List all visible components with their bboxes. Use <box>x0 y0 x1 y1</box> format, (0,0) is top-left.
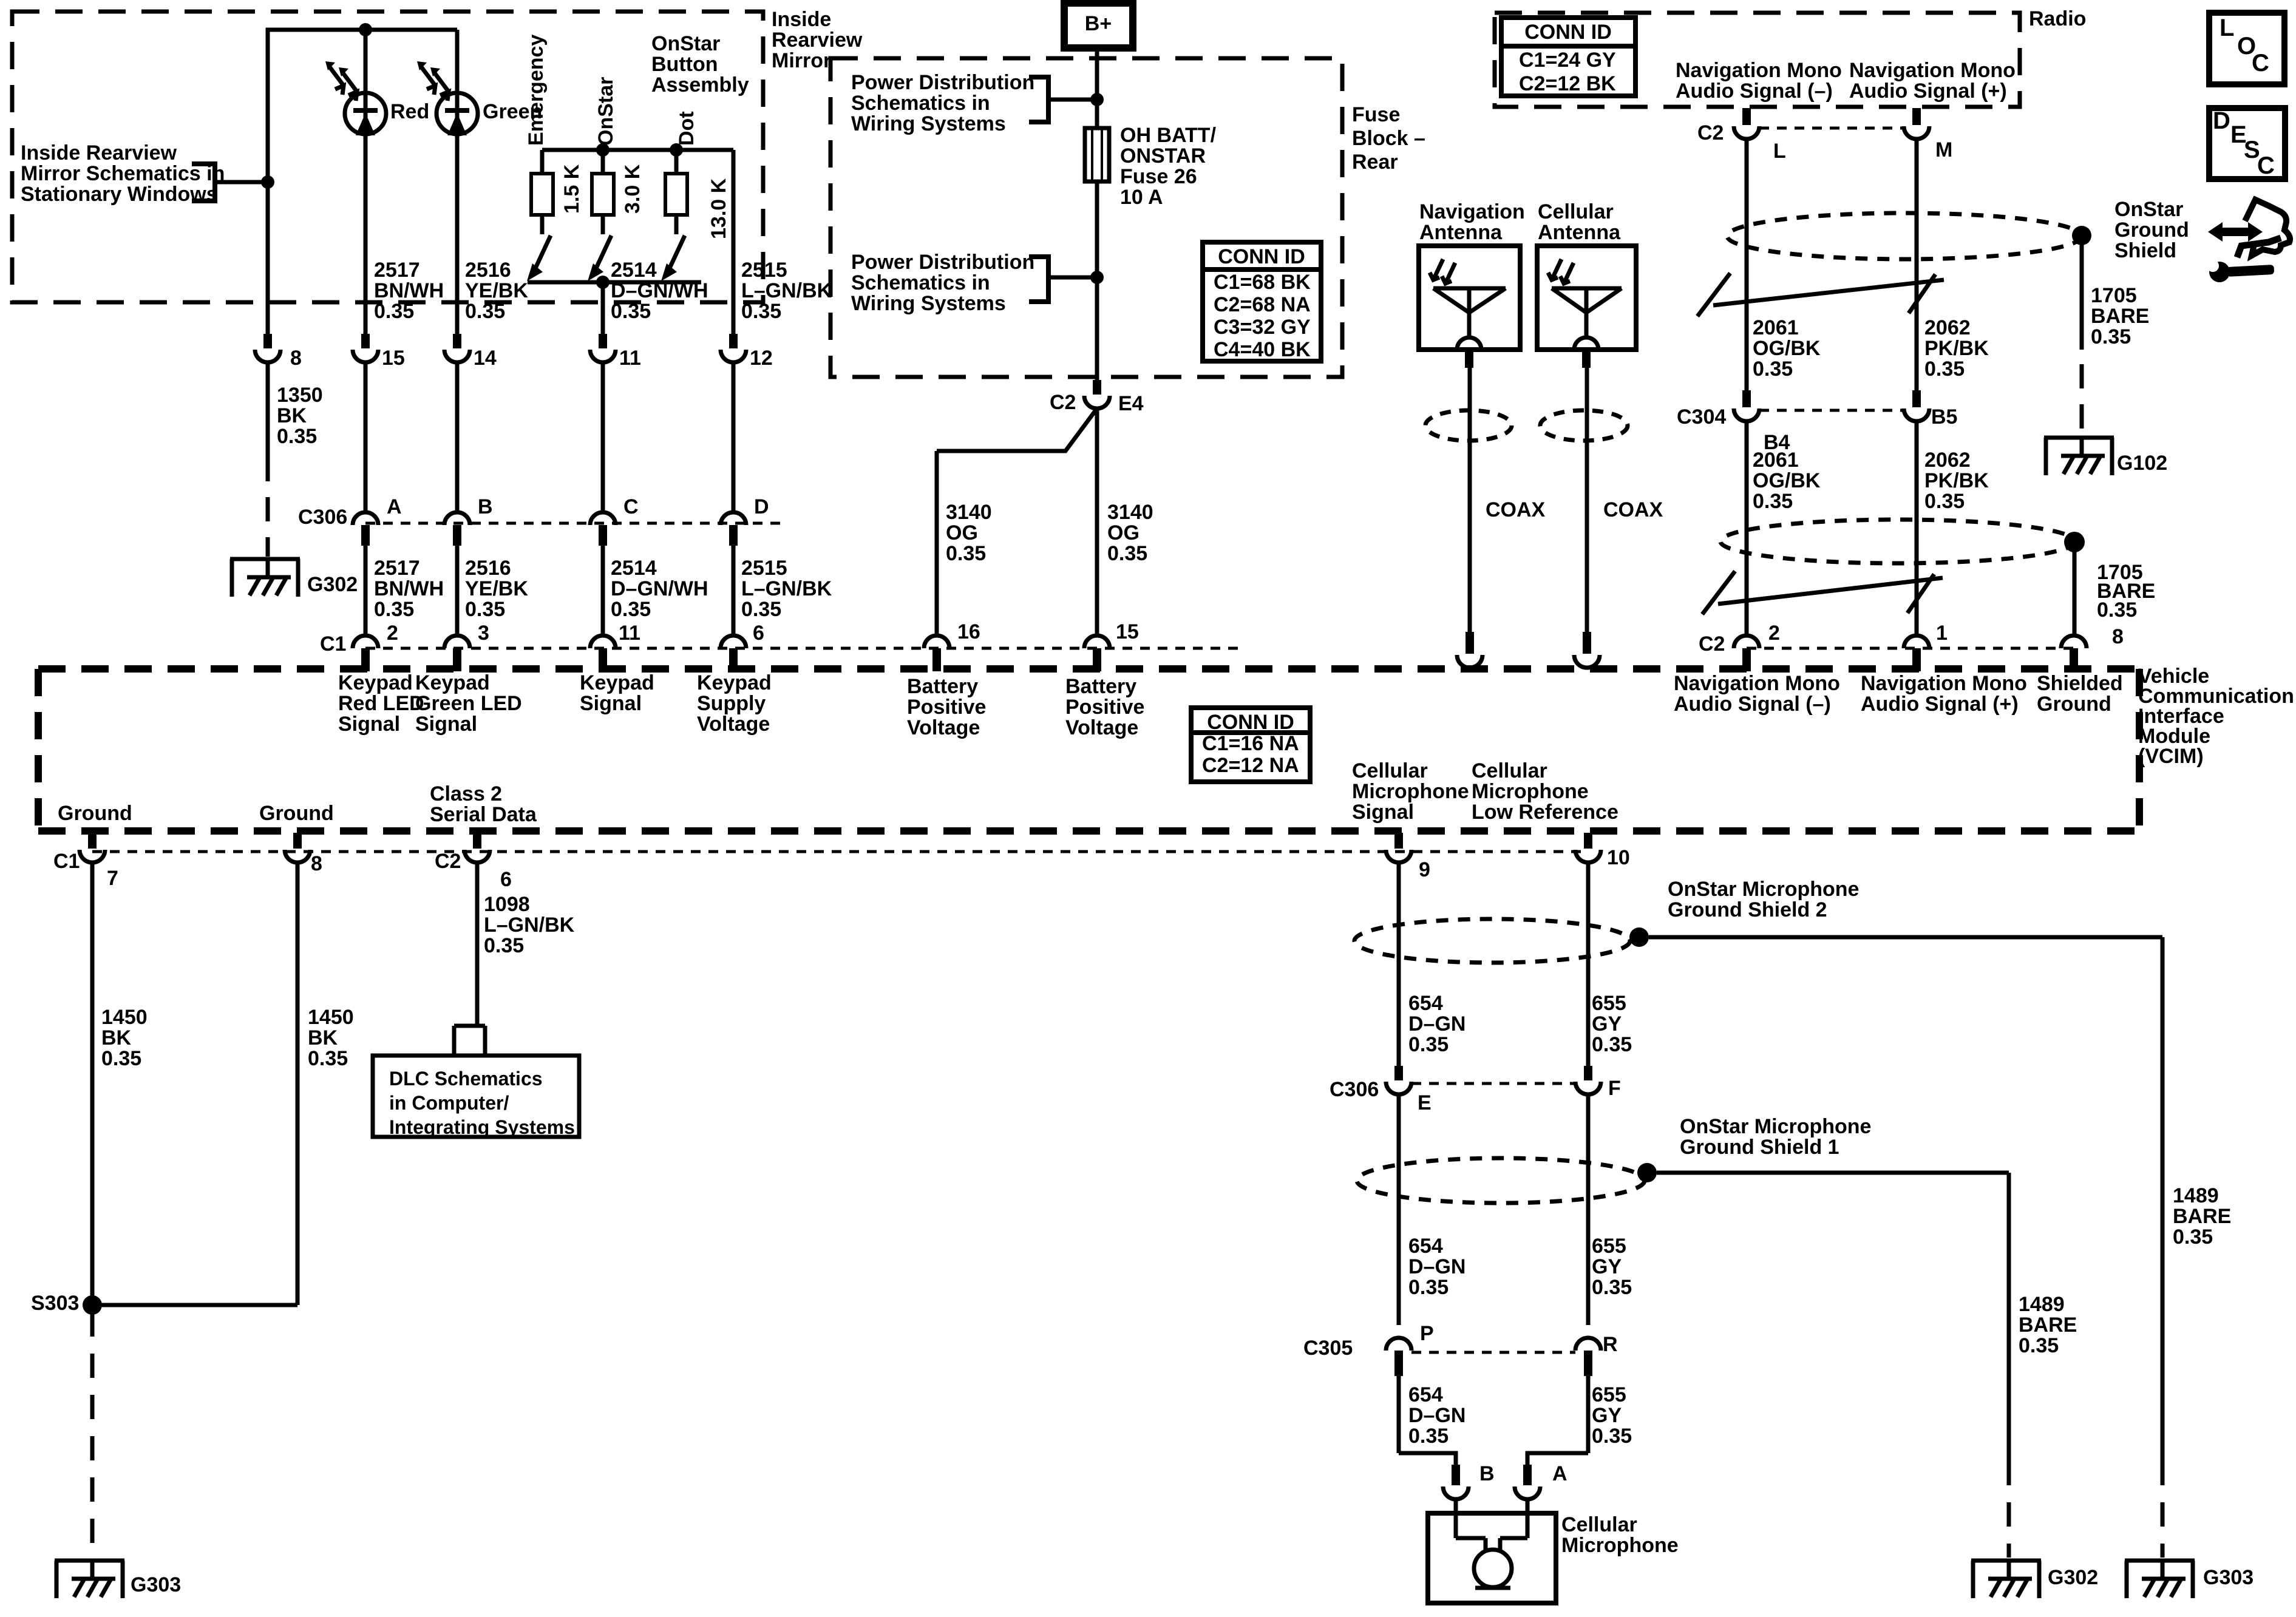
svg-text:S303: S303 <box>31 1292 79 1315</box>
svg-text:OnStar: OnStar <box>651 32 720 55</box>
svg-text:Wiring Systems: Wiring Systems <box>851 292 1006 315</box>
svg-text:Low Reference: Low Reference <box>1472 801 1618 824</box>
svg-text:BK: BK <box>101 1026 132 1049</box>
svg-text:in Computer/: in Computer/ <box>389 1092 509 1114</box>
svg-text:C306: C306 <box>298 506 347 529</box>
svg-text:Navigation Mono: Navigation Mono <box>1676 59 1842 82</box>
svg-text:0.35: 0.35 <box>611 598 651 621</box>
svg-text:0.35: 0.35 <box>374 300 414 323</box>
svg-text:2515: 2515 <box>741 557 787 580</box>
svg-text:Signal: Signal <box>580 692 642 715</box>
svg-text:Keypad: Keypad <box>338 671 413 694</box>
svg-text:OG/BK: OG/BK <box>1753 337 1821 360</box>
svg-text:OG: OG <box>1107 521 1140 544</box>
svg-text:Navigation Mono: Navigation Mono <box>1861 672 2027 695</box>
svg-text:ONSTAR: ONSTAR <box>1120 144 1206 168</box>
svg-text:0.35: 0.35 <box>101 1047 141 1070</box>
svg-text:C2=12 BK: C2=12 BK <box>1519 72 1616 95</box>
svg-text:Ground: Ground <box>259 802 334 825</box>
svg-text:0.35: 0.35 <box>484 934 524 957</box>
svg-text:Ground: Ground <box>58 802 132 825</box>
svg-text:Cellular: Cellular <box>1472 759 1547 782</box>
svg-text:Audio Signal (–): Audio Signal (–) <box>1674 693 1831 716</box>
svg-text:Block –: Block – <box>1352 127 1425 150</box>
svg-text:3140: 3140 <box>1107 501 1153 524</box>
svg-text:CONN ID: CONN ID <box>1218 245 1305 268</box>
svg-text:655: 655 <box>1592 1383 1626 1406</box>
svg-text:Audio Signal (+): Audio Signal (+) <box>1849 80 2007 103</box>
svg-text:BK: BK <box>308 1026 338 1049</box>
svg-text:2514: 2514 <box>611 259 657 282</box>
svg-text:Keypad: Keypad <box>580 671 654 694</box>
svg-text:1450: 1450 <box>308 1006 354 1029</box>
svg-text:C: C <box>623 495 639 518</box>
svg-text:L–GN/BK: L–GN/BK <box>741 577 832 600</box>
svg-text:14: 14 <box>474 347 497 370</box>
svg-text:C3=32 GY: C3=32 GY <box>1214 316 1311 339</box>
svg-text:PK/BK: PK/BK <box>1924 469 1989 492</box>
svg-text:OH BATT/: OH BATT/ <box>1120 124 1217 147</box>
svg-text:2516: 2516 <box>465 259 511 282</box>
svg-text:16: 16 <box>957 620 980 643</box>
svg-text:Navigation: Navigation <box>1419 200 1525 223</box>
svg-text:Wiring Systems: Wiring Systems <box>851 112 1006 135</box>
svg-text:Microphone: Microphone <box>1561 1534 1679 1557</box>
svg-text:Antenna: Antenna <box>1419 221 1503 244</box>
svg-text:Rearview: Rearview <box>772 29 863 52</box>
svg-text:L–GN/BK: L–GN/BK <box>484 914 575 937</box>
svg-text:L: L <box>1773 140 1786 163</box>
svg-text:Cellular: Cellular <box>1352 759 1428 782</box>
svg-text:Antenna: Antenna <box>1538 221 1621 244</box>
svg-text:OnStar: OnStar <box>594 77 617 146</box>
svg-text:0.35: 0.35 <box>1592 1276 1632 1299</box>
svg-text:Dot: Dot <box>675 111 698 146</box>
svg-text:Radio: Radio <box>2029 7 2086 30</box>
svg-text:P: P <box>1420 1322 1434 1345</box>
svg-text:0.35: 0.35 <box>1753 358 1793 381</box>
svg-text:Voltage: Voltage <box>907 716 980 739</box>
svg-text:12: 12 <box>750 347 773 370</box>
svg-text:OG: OG <box>946 521 978 544</box>
svg-text:0.35: 0.35 <box>374 598 414 621</box>
svg-text:Ground: Ground <box>2037 693 2111 716</box>
svg-text:15: 15 <box>1116 620 1139 643</box>
svg-text:C2: C2 <box>1050 391 1076 414</box>
svg-text:655: 655 <box>1592 1235 1626 1258</box>
svg-text:C4=40 BK: C4=40 BK <box>1214 338 1311 361</box>
svg-text:BK: BK <box>277 404 307 427</box>
svg-text:0.35: 0.35 <box>1753 490 1793 513</box>
svg-text:Green LED: Green LED <box>415 692 522 715</box>
svg-text:D: D <box>2213 107 2230 134</box>
svg-text:2514: 2514 <box>611 557 657 580</box>
svg-text:C: C <box>2252 50 2269 76</box>
svg-text:G302: G302 <box>307 573 358 596</box>
svg-text:0.35: 0.35 <box>1107 542 1147 565</box>
svg-text:BARE: BARE <box>2173 1205 2231 1228</box>
svg-text:CONN ID: CONN ID <box>1524 21 1612 44</box>
svg-text:3.0 K: 3.0 K <box>621 164 644 214</box>
svg-text:D–GN: D–GN <box>1408 1404 1466 1427</box>
svg-text:B: B <box>478 495 493 518</box>
svg-text:Red LED: Red LED <box>338 692 424 715</box>
svg-text:DLC Schematics: DLC Schematics <box>389 1068 543 1090</box>
svg-text:Battery: Battery <box>1065 675 1136 698</box>
svg-text:2: 2 <box>1768 622 1780 645</box>
svg-text:Voltage: Voltage <box>1065 716 1138 739</box>
svg-text:0.35: 0.35 <box>1592 1033 1632 1056</box>
svg-text:OnStar Microphone: OnStar Microphone <box>1668 878 1859 901</box>
svg-text:C1=16 NA: C1=16 NA <box>1202 732 1299 755</box>
svg-text:BN/WH: BN/WH <box>374 577 444 600</box>
svg-text:1: 1 <box>1936 622 1948 645</box>
svg-text:Positive: Positive <box>907 696 986 719</box>
svg-text:0.35: 0.35 <box>2019 1334 2059 1357</box>
svg-text:GY: GY <box>1592 1255 1622 1278</box>
svg-text:C304: C304 <box>1677 405 1726 429</box>
svg-text:Assembly: Assembly <box>651 73 749 97</box>
svg-text:10 A: 10 A <box>1120 186 1163 209</box>
svg-text:Red: Red <box>390 100 429 123</box>
svg-text:13.0 K: 13.0 K <box>707 178 730 239</box>
svg-text:C2=68 NA: C2=68 NA <box>1214 293 1311 316</box>
svg-text:GY: GY <box>1592 1404 1622 1427</box>
svg-text:COAX: COAX <box>1603 498 1663 521</box>
svg-text:1.5 K: 1.5 K <box>560 164 583 214</box>
svg-text:A: A <box>1552 1462 1567 1485</box>
svg-text:CONN ID: CONN ID <box>1207 711 1294 734</box>
svg-text:Signal: Signal <box>1352 801 1414 824</box>
svg-text:BN/WH: BN/WH <box>374 279 444 302</box>
svg-text:Battery: Battery <box>907 675 978 698</box>
svg-text:COAX: COAX <box>1486 498 1546 521</box>
svg-text:Microphone: Microphone <box>1472 780 1589 803</box>
svg-text:6: 6 <box>500 868 512 891</box>
svg-text:0.35: 0.35 <box>611 300 651 323</box>
svg-text:Integrating Systems: Integrating Systems <box>389 1116 575 1138</box>
svg-text:0.35: 0.35 <box>2091 325 2131 348</box>
svg-text:E4: E4 <box>1118 392 1144 415</box>
svg-text:Microphone: Microphone <box>1352 780 1469 803</box>
svg-text:654: 654 <box>1408 1235 1443 1258</box>
svg-text:2516: 2516 <box>465 557 511 580</box>
svg-text:Schematics in: Schematics in <box>851 271 990 294</box>
svg-text:C2: C2 <box>435 850 461 873</box>
svg-text:C1=24 GY: C1=24 GY <box>1519 49 1616 72</box>
svg-text:D: D <box>754 495 769 518</box>
svg-text:F: F <box>1608 1077 1621 1100</box>
svg-text:8: 8 <box>290 347 302 370</box>
svg-text:7: 7 <box>107 867 118 890</box>
svg-text:PK/BK: PK/BK <box>1924 337 1989 360</box>
svg-text:Button: Button <box>651 53 718 76</box>
svg-text:B: B <box>1479 1462 1495 1485</box>
svg-text:2061: 2061 <box>1753 449 1799 472</box>
svg-text:655: 655 <box>1592 992 1626 1015</box>
svg-text:C: C <box>2257 152 2275 179</box>
svg-text:Cellular: Cellular <box>1538 200 1614 223</box>
svg-text:R: R <box>1603 1333 1618 1356</box>
svg-text:11: 11 <box>619 347 641 370</box>
svg-text:1450: 1450 <box>101 1006 148 1029</box>
svg-text:L: L <box>2220 15 2234 41</box>
svg-text:2515: 2515 <box>741 259 787 282</box>
svg-text:BARE: BARE <box>2019 1314 2077 1337</box>
svg-text:654: 654 <box>1408 1383 1443 1406</box>
svg-text:Ground: Ground <box>2114 219 2189 242</box>
svg-text:9: 9 <box>1419 858 1430 881</box>
svg-text:Stationary Windows: Stationary Windows <box>21 183 218 206</box>
svg-text:(VCIM): (VCIM) <box>2138 745 2204 768</box>
svg-text:Schematics in: Schematics in <box>851 92 990 115</box>
svg-text:11: 11 <box>619 622 640 645</box>
svg-text:Keypad: Keypad <box>697 671 772 694</box>
svg-text:10: 10 <box>1607 846 1630 869</box>
svg-text:Fuse 26: Fuse 26 <box>1120 165 1197 188</box>
svg-text:YE/BK: YE/BK <box>465 279 528 302</box>
svg-text:Mirror: Mirror <box>772 49 831 72</box>
svg-text:Shielded: Shielded <box>2037 672 2123 695</box>
svg-text:0.35: 0.35 <box>1924 358 1965 381</box>
svg-text:2062: 2062 <box>1924 316 1971 339</box>
svg-text:1489: 1489 <box>2173 1184 2219 1207</box>
svg-text:Positive: Positive <box>1065 696 1144 719</box>
svg-text:0.35: 0.35 <box>1592 1425 1632 1448</box>
svg-text:B5: B5 <box>1931 405 1957 429</box>
svg-text:6: 6 <box>753 622 764 645</box>
svg-text:Ground Shield 1: Ground Shield 1 <box>1680 1136 1839 1159</box>
svg-text:Keypad: Keypad <box>415 671 490 694</box>
svg-text:BARE: BARE <box>2091 305 2149 328</box>
svg-text:0.35: 0.35 <box>2097 598 2137 622</box>
svg-text:Audio Signal (+): Audio Signal (+) <box>1861 693 2019 716</box>
svg-text:Voltage: Voltage <box>697 713 770 736</box>
svg-text:Cellular: Cellular <box>1561 1513 1637 1536</box>
svg-text:0.35: 0.35 <box>1408 1276 1449 1299</box>
svg-text:C1: C1 <box>320 632 346 656</box>
svg-text:C2=12 NA: C2=12 NA <box>1202 754 1299 777</box>
svg-text:0.35: 0.35 <box>946 542 986 565</box>
svg-text:Shield: Shield <box>2114 239 2176 262</box>
svg-text:0.35: 0.35 <box>308 1047 348 1070</box>
svg-text:2061: 2061 <box>1753 316 1799 339</box>
svg-text:Audio Signal (–): Audio Signal (–) <box>1676 80 1833 103</box>
svg-text:L–GN/BK: L–GN/BK <box>741 279 832 302</box>
svg-text:0.35: 0.35 <box>1408 1425 1449 1448</box>
svg-text:1705: 1705 <box>2091 284 2137 307</box>
svg-text:2517: 2517 <box>374 259 420 282</box>
svg-text:C2: C2 <box>1699 632 1725 656</box>
svg-text:0.35: 0.35 <box>1924 490 1965 513</box>
svg-text:Class 2: Class 2 <box>430 782 502 805</box>
svg-text:Navigation Mono: Navigation Mono <box>1674 672 1840 695</box>
svg-text:3: 3 <box>478 622 489 645</box>
svg-text:C1=68 BK: C1=68 BK <box>1214 271 1311 294</box>
svg-text:OnStar Microphone: OnStar Microphone <box>1680 1115 1871 1138</box>
svg-text:OG/BK: OG/BK <box>1753 469 1821 492</box>
svg-text:Signal: Signal <box>415 713 477 736</box>
svg-text:Inside Rearview: Inside Rearview <box>21 141 177 164</box>
svg-text:0.35: 0.35 <box>741 598 781 621</box>
svg-text:8: 8 <box>2112 625 2124 648</box>
svg-text:Power Distribution: Power Distribution <box>851 71 1034 94</box>
svg-text:Rear: Rear <box>1352 151 1398 174</box>
svg-text:Signal: Signal <box>338 713 400 736</box>
svg-text:YE/BK: YE/BK <box>465 577 528 600</box>
svg-text:Fuse: Fuse <box>1352 103 1400 126</box>
svg-text:0.35: 0.35 <box>1408 1033 1449 1056</box>
svg-text:0.35: 0.35 <box>2173 1225 2213 1249</box>
svg-text:2517: 2517 <box>374 557 420 580</box>
svg-text:GY: GY <box>1592 1012 1622 1036</box>
svg-text:1350: 1350 <box>277 384 323 407</box>
svg-text:C305: C305 <box>1303 1337 1353 1360</box>
svg-text:1098: 1098 <box>484 893 530 916</box>
svg-text:D–GN: D–GN <box>1408 1255 1466 1278</box>
svg-text:8: 8 <box>311 852 322 875</box>
svg-text:OnStar: OnStar <box>2114 198 2183 221</box>
svg-text:A: A <box>387 495 402 518</box>
svg-text:0.35: 0.35 <box>465 598 505 621</box>
svg-text:D–GN: D–GN <box>1408 1012 1466 1036</box>
svg-text:D–GN/WH: D–GN/WH <box>611 577 708 600</box>
svg-text:15: 15 <box>382 347 405 370</box>
svg-text:2: 2 <box>387 622 398 645</box>
svg-text:3140: 3140 <box>946 501 992 524</box>
svg-text:2062: 2062 <box>1924 449 1971 472</box>
svg-text:654: 654 <box>1408 992 1443 1015</box>
svg-text:Navigation Mono: Navigation Mono <box>1849 59 2016 82</box>
svg-text:D–GN/WH: D–GN/WH <box>611 279 708 302</box>
svg-text:Emergency: Emergency <box>525 35 548 146</box>
svg-text:Serial Data: Serial Data <box>430 803 537 826</box>
svg-text:Ground Shield 2: Ground Shield 2 <box>1668 898 1827 921</box>
svg-text:Inside: Inside <box>772 8 831 31</box>
svg-text:C2: C2 <box>1697 121 1724 144</box>
svg-text:Power Distribution: Power Distribution <box>851 251 1034 274</box>
svg-text:G102: G102 <box>2117 452 2167 475</box>
svg-text:0.35: 0.35 <box>277 425 317 448</box>
svg-text:G303: G303 <box>131 1573 181 1596</box>
svg-text:G303: G303 <box>2203 1566 2254 1589</box>
svg-text:0.35: 0.35 <box>465 300 505 323</box>
svg-text:Supply: Supply <box>697 692 766 715</box>
svg-text:M: M <box>1935 138 1952 161</box>
svg-text:0.35: 0.35 <box>741 300 781 323</box>
svg-text:E: E <box>1418 1091 1432 1114</box>
svg-text:B+: B+ <box>1085 12 1112 35</box>
svg-text:C306: C306 <box>1330 1078 1379 1101</box>
svg-text:C1: C1 <box>53 850 80 873</box>
svg-text:G302: G302 <box>2048 1566 2098 1589</box>
svg-text:1489: 1489 <box>2019 1293 2065 1316</box>
